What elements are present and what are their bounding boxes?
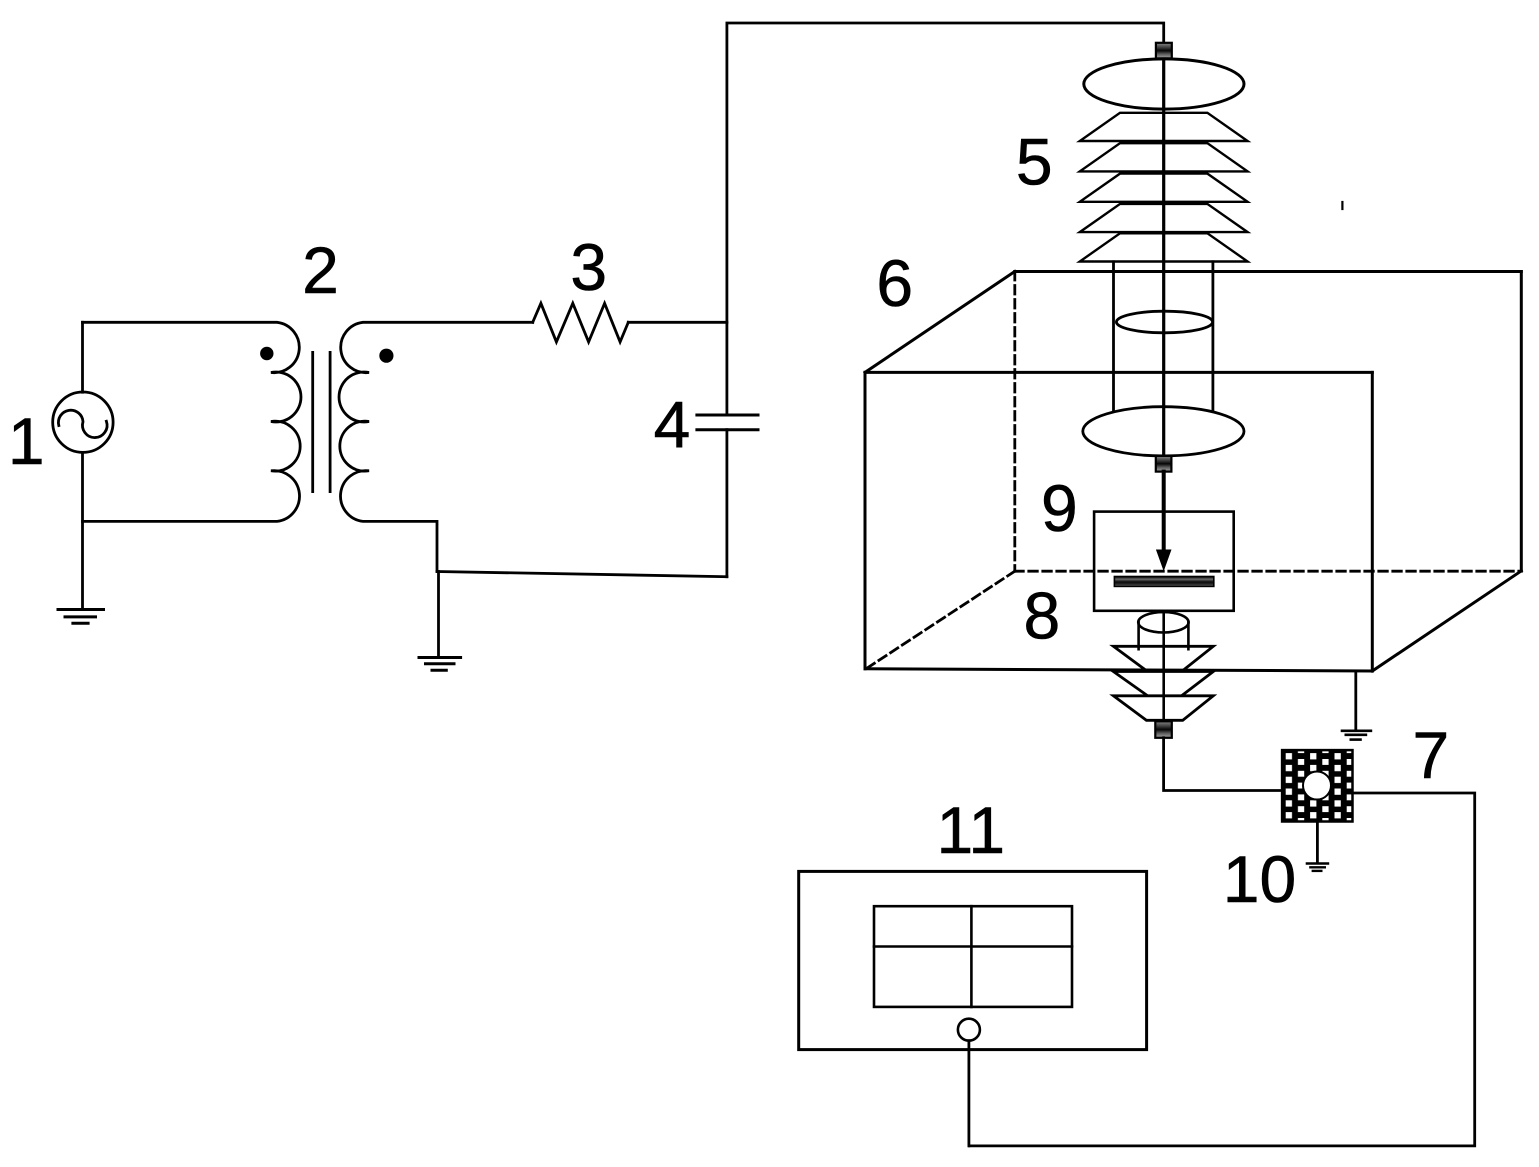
ground G2 (transformer) [419,658,461,671]
svg-text:7: 7 [1412,718,1449,792]
lens big [1083,407,1244,456]
wire tank to ground G3 [1354,671,1357,730]
lower terminal [1155,721,1172,738]
scope knob [958,1019,980,1041]
lens small [1116,311,1212,333]
bushing 5 tube [1112,262,1115,412]
wire resistor to node [628,321,727,324]
bushing 5 shed 3 [1080,174,1248,202]
bushing 5 shed 2 [1080,143,1248,171]
lower bushing shed C [1113,696,1213,721]
svg-text:10: 10 [1223,842,1296,916]
svg-text:2: 2 [302,233,339,307]
wire scope knob lead [968,1041,971,1146]
bushing 5 top terminal [1156,43,1172,59]
dot secondary polarity [379,349,393,363]
oscilloscope screen [874,906,1072,1007]
sensor 10 window [1303,772,1331,800]
tank 6 right face [1520,272,1523,571]
AC source 1 [53,392,113,452]
svg-text:1: 1 [8,404,45,478]
specimen bar [1114,577,1213,587]
bushing 5 shed 1 [1080,113,1248,141]
resistor 3 [533,303,629,342]
wire capacitor bottom [726,430,729,577]
bushing 5 shed 5 [1080,233,1248,261]
lower center conductor [1162,611,1165,722]
svg-text:3: 3 [570,230,607,304]
sensor 10 body [1282,750,1352,821]
oscilloscope 11 case [799,871,1147,1049]
ground G4 (sensor) [1307,864,1328,871]
wire sensor to ground G4 [1316,822,1319,864]
wire top from capacitor node to bushing 5 [727,23,1164,414]
collector cylinder 8 [1137,622,1140,649]
beam arrow [1162,472,1166,552]
wire to ground G2 [437,572,440,658]
wire return to capacitor bottom [437,572,727,577]
svg-text:5: 5 [1016,125,1053,199]
ground G3 (tank) [1342,731,1371,740]
transformer T1 secondary winding [339,322,533,571]
bushing 5 shed 4 [1080,204,1248,232]
svg-text:11: 11 [937,793,1006,867]
capacitor 4 plates [697,415,758,430]
svg-text:6: 6 [876,246,913,320]
svg-text:9: 9 [1041,471,1078,545]
transformer T1 core [311,352,314,491]
dot primary polarity [260,347,273,360]
lower bushing shed A [1113,646,1213,670]
bushing 5 center conductor [1162,58,1165,471]
tank 6 hidden edges (dashed) [866,272,1521,669]
specimen holder 9 [1094,512,1234,611]
ground G1 (source) [58,610,104,624]
wire 7 sensor to oscilloscope [970,793,1475,1146]
bushing 5 corona ring [1084,59,1244,109]
tank 6 front face [865,272,1521,672]
wire lower terminal to sensor 10 [1164,738,1283,791]
svg-text:8: 8 [1024,579,1061,653]
tank 6 top face [865,272,1015,373]
screen divider vertical [970,906,973,1007]
svg-text:4: 4 [654,388,691,462]
wire source bottom lead [81,452,84,608]
transformer T1 primary winding [83,322,301,521]
tick mark [1341,202,1343,209]
lower bushing shed B [1113,672,1213,695]
terminal below lens [1156,456,1172,472]
screen divider horizontal [874,945,1072,948]
wire source top lead [81,322,84,392]
